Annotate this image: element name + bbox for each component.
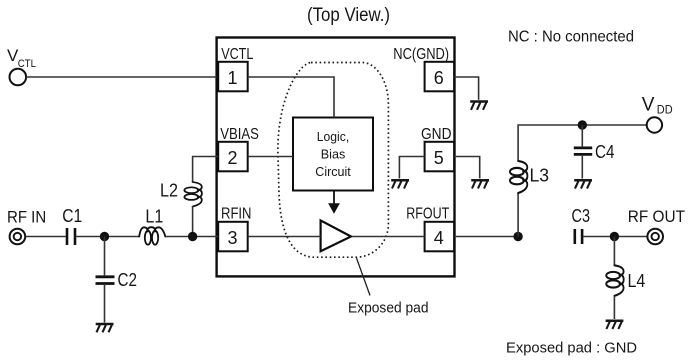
capacitor C4 bbox=[574, 148, 592, 155]
svg-text:Bias: Bias bbox=[321, 148, 346, 162]
inductor L2 bbox=[184, 182, 202, 207]
label L2 bbox=[160, 180, 178, 200]
ground at pin5 left bbox=[391, 180, 409, 188]
inductor L3 bbox=[510, 161, 528, 193]
label V_DD bbox=[642, 94, 673, 116]
svg-text:Circuit: Circuit bbox=[315, 165, 351, 179]
label L3 bbox=[530, 166, 550, 186]
capacitor C3 bbox=[575, 229, 582, 244]
svg-text:4: 4 bbox=[434, 228, 444, 248]
svg-text:L4: L4 bbox=[628, 271, 646, 291]
svg-text:2: 2 bbox=[227, 148, 237, 168]
pin 4 name RFOUT bbox=[406, 205, 449, 222]
label C3 bbox=[572, 206, 591, 226]
svg-text:1: 1 bbox=[227, 68, 237, 88]
svg-text:C1: C1 bbox=[62, 206, 82, 226]
svg-text:3: 3 bbox=[227, 228, 237, 248]
IC package outline U1 bbox=[217, 38, 455, 277]
svg-text:Exposed pad : GND: Exposed pad : GND bbox=[506, 339, 637, 356]
wire pin2 to logic block bbox=[248, 156, 293, 158]
svg-text:VBIAS: VBIAS bbox=[220, 126, 259, 143]
inductor L4 bbox=[606, 265, 624, 296]
inductor L1 bbox=[139, 227, 165, 245]
pin 1 box bbox=[218, 62, 248, 92]
wire amplifier to pin4 bbox=[352, 236, 425, 238]
ground below L4 bbox=[606, 321, 624, 329]
ground at pin5 right bbox=[471, 180, 489, 188]
pin 3 box bbox=[218, 222, 248, 252]
leader line to Exposed pad bbox=[357, 258, 371, 296]
svg-text:Exposed pad: Exposed pad bbox=[348, 301, 429, 317]
node dot at L4 junction bbox=[610, 232, 619, 241]
terminal RF OUT port bbox=[647, 229, 663, 245]
label C4 bbox=[595, 142, 615, 162]
svg-text:CTL: CTL bbox=[18, 58, 36, 70]
svg-text:V: V bbox=[642, 94, 655, 115]
ground below C2 bbox=[96, 324, 114, 332]
wire L1 to pin 3 bbox=[165, 236, 218, 238]
svg-text:(Top View.): (Top View.) bbox=[307, 5, 390, 26]
wire pin4 to L3 node bbox=[455, 236, 519, 238]
ground at pin6 bbox=[470, 102, 488, 110]
wire pin3 to amplifier bbox=[248, 236, 321, 238]
svg-text:C4: C4 bbox=[595, 142, 615, 162]
svg-text:RF OUT: RF OUT bbox=[628, 208, 685, 226]
title (Top View.) bbox=[307, 5, 390, 26]
wire pin5 left to ground bbox=[399, 157, 424, 179]
pin 6 box bbox=[425, 62, 455, 92]
svg-text:L1: L1 bbox=[145, 207, 163, 227]
wire C4 to ground bbox=[581, 156, 583, 179]
label Exposed pad bbox=[348, 301, 429, 317]
svg-text:Logic,: Logic, bbox=[317, 130, 349, 144]
terminal RF IN port bbox=[10, 229, 26, 245]
wire L2 to RFIN node bbox=[192, 206, 194, 236]
wire node down to L4 bbox=[613, 237, 615, 266]
svg-text:L3: L3 bbox=[530, 166, 550, 186]
label V_CTL bbox=[7, 46, 36, 70]
terminal VDD port bbox=[647, 117, 662, 132]
node dot at C4 junction bbox=[578, 120, 587, 129]
wire node up to L3 bbox=[517, 193, 519, 236]
amplifier U2 bbox=[321, 220, 351, 251]
label RF IN bbox=[7, 209, 46, 227]
svg-text:RF IN: RF IN bbox=[7, 209, 46, 227]
terminal VCTL port circle bbox=[9, 69, 26, 86]
capacitor C2 bbox=[96, 277, 115, 284]
wire node to C4 bbox=[581, 125, 583, 146]
node dot at L3 junction bbox=[513, 232, 522, 241]
wire pin1 to logic block bbox=[248, 77, 334, 118]
pin 6 name NC(GND) bbox=[393, 46, 449, 63]
svg-text:L2: L2 bbox=[160, 180, 178, 200]
arrow from logic block to amplifier bbox=[328, 191, 340, 214]
wire L3 to VDD line bbox=[518, 125, 647, 161]
capacitor C1 bbox=[67, 228, 75, 245]
node dot at C2 junction bbox=[100, 232, 109, 241]
wire C2 to ground bbox=[104, 285, 106, 323]
logic bias circuit block bbox=[293, 118, 373, 191]
pin 2 name VBIAS bbox=[220, 126, 259, 143]
label C1 bbox=[62, 206, 82, 226]
svg-text:GND: GND bbox=[421, 126, 452, 143]
svg-text:C2: C2 bbox=[118, 270, 138, 290]
label Exposed pad : GND bbox=[506, 339, 637, 356]
pin 5 name GND bbox=[421, 126, 452, 143]
label L4 bbox=[628, 271, 646, 291]
svg-text:NC : No connected: NC : No connected bbox=[508, 28, 634, 45]
svg-text:6: 6 bbox=[434, 68, 444, 88]
label RF OUT bbox=[628, 208, 685, 226]
svg-text:RFIN: RFIN bbox=[221, 205, 252, 222]
label C2 bbox=[118, 270, 138, 290]
wire C1 to L1 bbox=[76, 236, 139, 238]
pin 4 box bbox=[425, 222, 455, 252]
pin 3 name RFIN bbox=[221, 205, 252, 222]
wire VCTL to pin 1 bbox=[26, 76, 217, 78]
exposed pad dotted outline bbox=[278, 63, 389, 258]
svg-text:NC(GND): NC(GND) bbox=[393, 46, 449, 63]
ground below C4 bbox=[574, 180, 592, 188]
svg-text:RFOUT: RFOUT bbox=[406, 205, 449, 222]
wire L4 to ground bbox=[613, 296, 615, 319]
note NC : No connected bbox=[508, 28, 634, 45]
wire C3 to RF OUT bbox=[583, 236, 647, 238]
pin 2 box bbox=[218, 142, 248, 172]
pin 1 name VCTL bbox=[221, 46, 254, 63]
wire node to C2 bbox=[104, 237, 106, 276]
svg-text:5: 5 bbox=[434, 148, 444, 168]
wire pin2 left to L2 bbox=[193, 157, 219, 183]
wire pin6 to ground bbox=[454, 77, 479, 100]
svg-text:VCTL: VCTL bbox=[221, 46, 254, 63]
svg-text:DD: DD bbox=[657, 103, 673, 117]
pin 5 box bbox=[425, 142, 455, 172]
label L1 bbox=[145, 207, 163, 227]
node dot at L2 junction bbox=[188, 232, 197, 241]
wire RF IN to C1 bbox=[25, 236, 65, 238]
svg-text:C3: C3 bbox=[572, 206, 591, 226]
wire pin5 right to ground bbox=[454, 157, 480, 179]
